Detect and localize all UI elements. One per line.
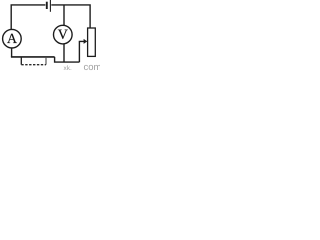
wire voltmeter bottom branch xyxy=(63,44,65,62)
wire voltmeter top branch xyxy=(63,5,65,26)
svg-text:xk.: xk. xyxy=(64,65,73,71)
voltmeter U2 circle xyxy=(54,25,73,44)
resistor R box right edge xyxy=(45,57,47,65)
wire rheostat wiper lead xyxy=(79,41,84,62)
battery BT1 negative short plate xyxy=(46,2,48,9)
battery BT1 positive long plate xyxy=(49,0,51,12)
rheostat R2 body xyxy=(88,28,96,56)
wire bottom step down and right run to wiper xyxy=(55,57,80,62)
voltmeter letter V xyxy=(58,30,68,39)
svg-text:com: com xyxy=(84,62,101,71)
rheostat wiper arrowhead xyxy=(84,39,88,44)
wire top-right from battery to rheostat top xyxy=(51,5,90,28)
wire ammeter bottom branch xyxy=(11,48,13,57)
ammeter U1 circle xyxy=(3,29,22,48)
resistor R box dashed bottom edge xyxy=(21,64,46,66)
wire top-left from ammeter up and right to battery xyxy=(11,5,45,30)
resistor R box left edge xyxy=(20,57,22,65)
ammeter letter A xyxy=(7,34,17,43)
wire bottom-left running over resistor xyxy=(11,56,55,58)
